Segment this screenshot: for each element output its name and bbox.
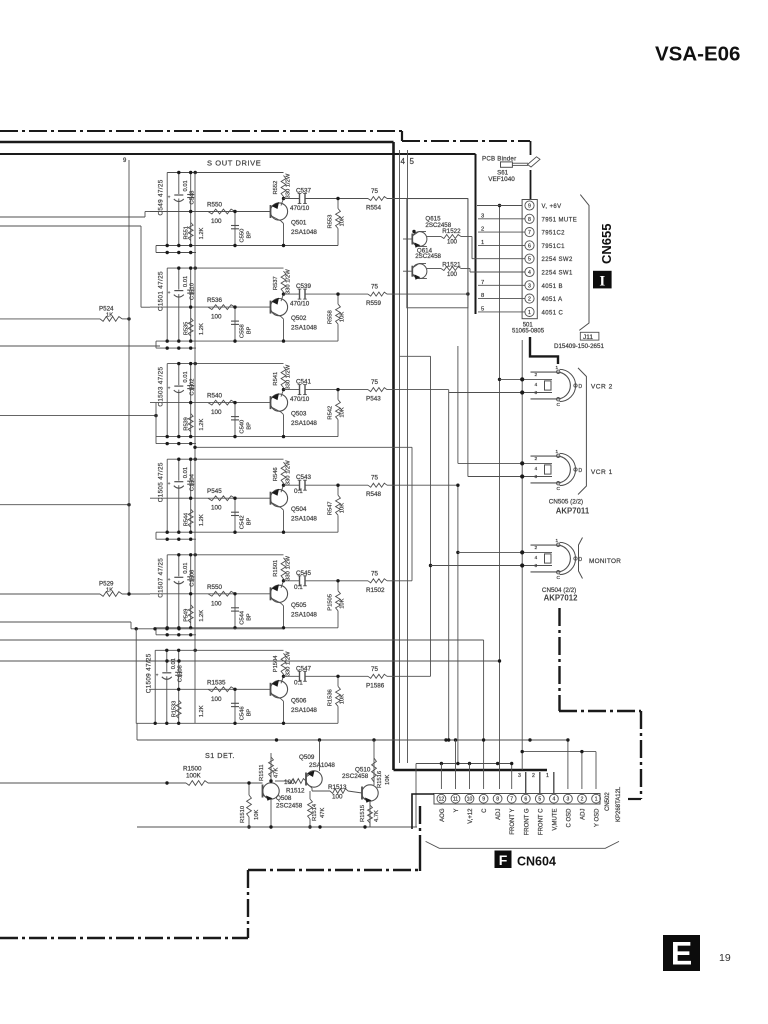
wire harness v457 lower [456,484,459,766]
svg-text:R559: R559 [366,300,382,307]
capacitor C544 [231,592,239,628]
svg-text:1: 1 [556,365,559,370]
label 75 [371,284,379,291]
label R537 [273,276,279,290]
binder icon [501,157,541,167]
label PCB Binder [482,156,516,163]
svg-text:R1516: R1516 [377,771,383,788]
svg-text:2254 SW2: 2254 SW2 [542,257,573,263]
label P549 [184,609,190,622]
resistor P1505 [336,579,341,628]
wire stage5 lower tie [156,628,196,637]
shield stub 1 [546,772,554,794]
label C1505 value [158,462,165,502]
svg-text:CN505 (2/2): CN505 (2/2) [549,499,583,506]
svg-text:4: 4 [401,157,406,166]
svg-text:P545: P545 [207,488,222,495]
transistor Q510 [362,740,378,827]
svg-text:2SC2458: 2SC2458 [342,773,369,780]
svg-text:P543: P543 [366,396,381,403]
svg-text:R550: R550 [207,202,223,209]
svg-text:2: 2 [535,456,538,462]
label R1535 [207,679,226,686]
label 2254 SW2 [542,257,573,263]
label Q615 type [425,222,451,229]
label C547 [296,665,312,672]
label D15409-150-2651 [554,343,604,350]
label R547 value [340,503,346,513]
svg-text:R1522: R1522 [442,228,461,235]
wire stage3 left branch [166,364,168,437]
label 75 [371,666,379,673]
label Q510 [342,767,371,781]
svg-text:10: 10 [467,797,473,803]
svg-text:75: 75 [371,379,379,386]
svg-text:0.1: 0.1 [294,679,303,686]
svg-text:Q508: Q508 [276,795,292,802]
svg-text:75: 75 [371,570,379,577]
label C1506 value [183,563,189,574]
wire pin stub 5 [478,311,525,313]
pin 3 CN604 [564,794,573,803]
svg-text:I: I [599,274,605,290]
wire stage3 jog [448,390,450,393]
label CN504 [542,587,576,594]
resistor R1533 [176,700,181,718]
svg-text:12: 12 [439,797,445,803]
svg-text:V,+12: V,+12 [468,808,474,824]
svg-text:75: 75 [371,188,379,195]
node stage4 junctions [166,458,237,534]
wire stage3 output [284,389,449,391]
svg-text:Q503: Q503 [291,411,307,418]
label C1503 value [158,367,165,407]
svg-text:C: C [557,402,561,408]
label Q508 [276,795,303,810]
resistor R540 [208,400,235,405]
label 2254 SW1 [542,271,573,277]
svg-text:F: F [499,852,508,868]
wire stage1 lower tie [156,246,196,255]
svg-text:100: 100 [211,218,222,225]
label Q614 type [415,253,441,260]
wire riser pin1 [595,752,597,789]
label R550 value [211,218,222,225]
svg-text:Q504: Q504 [291,506,307,513]
wire stage1 left branch [166,173,168,246]
page tag E [663,935,700,972]
wire stage2 bottom rail [156,340,338,342]
svg-text:470/10: 470/10 [290,396,310,403]
svg-text:0.01: 0.01 [171,658,177,669]
svg-text:R1502: R1502 [366,587,385,594]
label Q502 type [291,325,317,332]
capacitor C549 [168,173,184,246]
label P1505 value [340,598,346,608]
wire stage3 top rail [167,363,283,365]
capacitor C543 [298,480,307,490]
wire stage2 top rail [167,267,283,269]
wire pin stub 2 [478,231,525,233]
wire stage1 output [284,198,468,200]
wire input 7 [0,639,484,641]
label CN502 [605,792,611,811]
label R1514 [312,803,326,821]
capacitor C550 [231,210,239,246]
node ref 7 [481,280,484,286]
label ADJ [496,809,502,820]
label C540 value [247,422,253,430]
svg-text:7: 7 [528,230,531,236]
resistor R535 [188,318,193,336]
wire MONITOR pin2 feed [431,565,523,567]
resistor R537 [281,271,286,294]
svg-text:7951C1: 7951C1 [542,244,566,250]
label C OSD [566,808,572,828]
svg-text:11: 11 [453,797,458,803]
svg-text:R1510: R1510 [240,806,246,823]
svg-text:3: 3 [481,213,484,219]
label R552 value [286,173,292,198]
jack VCR 1 [520,449,582,492]
svg-text:2SA1048: 2SA1048 [309,762,335,769]
label P545 [207,488,222,495]
label C550 value [247,231,253,239]
wire VCR2 pin2 feed [449,392,523,394]
svg-text:KP268TA12L: KP268TA12L [616,786,622,822]
label R539 [184,417,190,430]
svg-text:AOG: AOG [440,808,446,822]
capacitor C548 [187,173,194,246]
node stage6 junctions [154,649,237,725]
label V, +6V [542,204,562,210]
svg-text:5: 5 [538,797,541,803]
label C546 [240,706,246,720]
resistor P524 [0,317,131,322]
sheet split label 5 [410,157,415,166]
wire pin4 link [472,271,525,273]
label R1536 [328,689,334,706]
svg-text:10K: 10K [340,407,346,417]
resistor 75 ohm [368,579,387,583]
wire stage5 left branch [166,555,168,628]
svg-text:R1533: R1533 [172,701,178,717]
label C558 value [247,326,253,334]
wire stage3 base [150,401,271,404]
sheet split line right [407,150,409,763]
svg-text:C: C [557,486,561,492]
capacitor C558 [231,305,239,341]
label R539 value [199,419,205,431]
svg-text:D: D [579,468,583,474]
label C544 value [247,613,253,621]
frame inner border top [0,153,476,155]
resistor P549 [188,605,193,623]
svg-text:V, +6V: V, +6V [542,204,562,210]
svg-text:R1501: R1501 [273,560,279,577]
sheet border dash-dot right vert [558,608,560,711]
label Q506 type [291,707,317,714]
svg-text:R542: R542 [328,406,334,420]
svg-text:3: 3 [518,773,521,779]
wire stage2 lower tie [156,341,196,350]
resistor R552 [281,176,286,199]
label C1504 value [183,467,189,478]
svg-text:R1514: R1514 [312,803,318,821]
node stage2 junctions [166,266,237,342]
label Q509 [299,754,335,769]
svg-text:R537: R537 [273,276,279,290]
pin 8 CN655 [525,214,534,223]
wire VCR1 pin1 feed [458,462,522,464]
label R553 [328,215,334,229]
label C1502 value [183,371,189,382]
svg-text:C543: C543 [296,474,312,481]
svg-text:10K: 10K [340,216,346,226]
node stage1 junctions [166,171,237,247]
connector CN655 strip [522,200,537,319]
pin 1 CN604 [592,794,601,803]
label 7951 MUTE [542,217,578,223]
wire pin5 link [472,258,525,260]
label C539 value [290,301,310,308]
svg-text:330 1/2W: 330 1/2W [286,173,292,198]
label R1515 [360,805,380,822]
pin 10 CN604 [465,794,474,803]
svg-text:C549 47/25: C549 47/25 [158,179,165,215]
wire harness v457 upper [457,346,459,463]
svg-text:75: 75 [371,284,379,291]
svg-text:FRONT C: FRONT C [538,808,544,835]
svg-text:Y: Y [454,809,460,813]
transistor Q505 [270,579,287,629]
svg-text:R553: R553 [328,215,334,229]
label V,MUTE [552,809,558,831]
wire riser pin2 [581,752,583,789]
resistor R1510 [247,781,252,828]
svg-text:R536: R536 [207,297,223,304]
svg-text:C1508: C1508 [178,665,184,682]
svg-text:C539: C539 [296,283,312,290]
label S1 DET [205,751,235,760]
svg-text:0.1: 0.1 [294,584,303,591]
svg-text:J11: J11 [583,334,593,341]
sheet border dash-dot E vert [419,806,421,848]
svg-text:C547: C547 [296,665,312,672]
svg-text:R544: R544 [184,513,190,526]
svg-text:VEF1040: VEF1040 [488,176,515,183]
resistor R553 [336,197,341,246]
label R1513 [328,784,347,801]
label C548 value [183,180,189,191]
frame border right thick [392,142,395,770]
wire stage6 top rail [155,649,283,651]
title VSA-E06 [655,43,740,66]
label C542 [240,515,246,529]
wire harness h751 [521,750,597,753]
svg-text:2SA1048: 2SA1048 [291,229,317,236]
node ref 5 [481,306,484,312]
label R550 [207,584,223,591]
resistor P545 [208,496,235,501]
label C548 name [190,191,196,205]
svg-text:100: 100 [211,600,222,607]
wire input 5 [0,503,131,506]
svg-text:C1501 47/25: C1501 47/25 [158,271,165,311]
wire stage6 feed rail [131,627,283,630]
svg-text:19: 19 [719,952,731,964]
capacitor C1507 [168,555,184,628]
svg-text:+: + [168,481,171,486]
svg-text:2: 2 [535,545,538,551]
label R551 value [199,227,205,239]
sheet split label 4 [401,157,406,166]
label VCR 2 [591,384,613,391]
transistor Q503 [270,388,287,438]
label R1510 [240,806,260,823]
svg-text:1.2K: 1.2K [199,610,205,622]
label C543 value [294,488,303,495]
svg-text:100K: 100K [186,773,202,780]
label 4051 B [542,284,563,290]
svg-text:75: 75 [371,475,379,482]
label R540 value [211,409,222,416]
label R1512 [284,779,305,795]
svg-text:+: + [168,195,171,200]
svg-text:0.1: 0.1 [294,488,303,495]
jack VCR 2 [520,365,582,408]
resistor R1522 [427,235,472,259]
node stage5 junctions [166,553,237,629]
label R1502 [366,587,385,594]
label R550 value [211,600,222,607]
sheet border dash-dot right horiz [559,710,641,712]
resistor R1513 [312,789,362,794]
capacitor C541 [298,385,307,395]
svg-text:C1509 47/25: C1509 47/25 [146,653,153,693]
svg-text:C545: C545 [296,570,312,577]
label C546 value [247,709,253,717]
svg-text:8: 8 [481,293,484,299]
svg-text:Q506: Q506 [291,697,307,704]
resistor 75 ohm [368,674,387,678]
wire stage3 bottom rail [156,436,338,438]
resistor R550 [208,591,235,596]
wire stage5 base [150,592,271,595]
pin 4 CN604 [550,794,559,803]
transistor Q501 [270,197,287,247]
resistor R1515 [368,802,373,828]
connector CN604 body [434,794,600,805]
label Q502 [291,315,307,322]
label KP268TA12L [616,786,622,822]
svg-text:V,MUTE: V,MUTE [552,809,558,831]
tag F CN604 [495,851,512,869]
label C545 [296,570,312,577]
label P549 value [199,610,205,622]
svg-text:R547: R547 [328,501,334,515]
pin 7 CN604 [507,794,516,803]
svg-text:2: 2 [532,773,535,779]
label CN604 [517,855,556,869]
label 75 [371,475,379,482]
wire pin stub 8 [478,298,525,300]
resistor R558 [336,292,341,341]
wire stage3 lower tie [156,437,196,446]
pin 9 CN604 [479,794,488,803]
svg-text:1K: 1K [106,313,113,319]
sheet border dash-dot bottom [0,937,248,939]
label Q506 [291,697,307,704]
label 4051 C [542,310,564,316]
svg-text:R551: R551 [184,226,190,239]
board outline thick [530,337,558,364]
label R541 value [286,364,292,389]
svg-text:4051 A: 4051 A [542,297,563,303]
svg-text:100: 100 [211,409,222,416]
label R547 [328,501,334,515]
label 75 [371,379,379,386]
label R537 value [286,269,292,294]
pin 12 CN604 [437,794,446,803]
label C1510 value [183,276,189,287]
svg-text:BP: BP [247,326,253,334]
wire pin9 stub [477,205,522,207]
label Q615 [425,216,441,223]
resistor R539 [188,414,193,432]
pin 5 CN604 [535,794,544,803]
svg-text:C550: C550 [240,229,246,243]
label R1516 [377,771,391,788]
svg-text:R554: R554 [366,205,382,212]
svg-text:S1 DET.: S1 DET. [205,751,235,760]
svg-text:1.2K: 1.2K [199,419,205,431]
svg-text:2SC2458: 2SC2458 [276,803,303,810]
label C1504 name [190,473,196,491]
node 9 sheet ref [123,158,127,164]
label C537 value [290,205,310,212]
label C1508 name [178,665,184,682]
label C545 value [294,584,303,591]
wire riser pin12 [440,764,442,790]
wire riser pin3 [566,738,569,789]
svg-text:51065-0805: 51065-0805 [512,328,545,334]
svg-text:R539: R539 [184,417,190,430]
svg-text:R548: R548 [366,491,382,498]
svg-text:1: 1 [528,310,531,316]
svg-text:2SA1048: 2SA1048 [291,516,317,523]
label R552 [273,181,279,195]
label C549 value [158,179,165,215]
svg-text:Q509: Q509 [299,754,315,761]
label R1501 value [286,555,292,580]
svg-text:S OUT DRIVE: S OUT DRIVE [207,159,261,168]
svg-text:Y OSD: Y OSD [595,808,601,827]
pin 2 CN655 [525,294,534,303]
svg-text:2: 2 [581,797,584,803]
label C1508 value [171,658,177,669]
svg-text:1.2K: 1.2K [199,514,205,526]
svg-text:C OSD: C OSD [566,808,572,828]
pin 1 CN655 [525,307,534,316]
resistor 75 ohm [368,292,387,296]
wire harness v448 [447,393,450,742]
wire Q block box [407,199,468,308]
svg-text:R1536: R1536 [328,689,334,706]
label P545 value [211,505,222,512]
svg-text:330 1/2W: 330 1/2W [286,460,292,485]
svg-text:1.2K: 1.2K [199,227,205,239]
